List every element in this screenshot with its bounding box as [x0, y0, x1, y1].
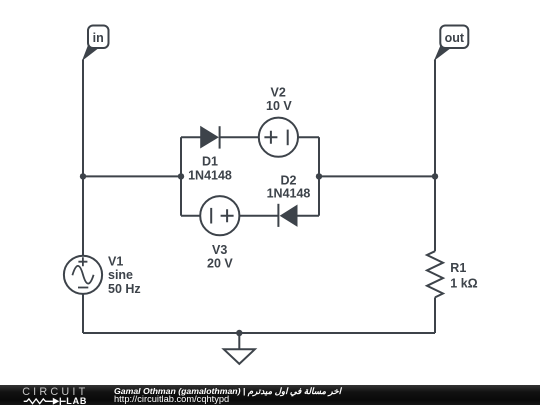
- node dot ground: [236, 330, 242, 336]
- svg-text:1N4148: 1N4148: [188, 169, 232, 183]
- wire: loop left vertical: [180, 137, 182, 216]
- svg-text:D2: D2: [281, 173, 297, 187]
- svg-text:20 V: 20 V: [207, 257, 233, 271]
- node dot left: [80, 173, 86, 179]
- wire: bottom branch segments: [181, 215, 319, 217]
- wire: right vertical below R1: [434, 297, 436, 333]
- voltage source V2: [259, 86, 298, 157]
- wire: mid horizontal left: [83, 175, 181, 177]
- resistor R1: [427, 251, 478, 297]
- svg-text:out: out: [445, 31, 465, 45]
- flag in: [83, 26, 109, 60]
- svg-text:in: in: [93, 31, 104, 45]
- svg-text:V2: V2: [271, 86, 286, 100]
- wire: bottom horizontal: [83, 332, 435, 334]
- diode D2: [267, 173, 311, 227]
- wire: mid horizontal right: [319, 175, 435, 177]
- CircuitLab logo: [0, 385, 107, 405]
- svg-text:1 kΩ: 1 kΩ: [450, 277, 477, 291]
- ground: [224, 349, 255, 364]
- voltage source V1 (sine): [64, 255, 141, 296]
- svg-text:R1: R1: [450, 261, 466, 275]
- svg-text:V1: V1: [108, 255, 123, 269]
- wire: in flag lead, left vertical: [82, 60, 84, 256]
- flag out: [435, 26, 468, 60]
- wire: loop right vertical: [318, 137, 320, 216]
- svg-text:1N4148: 1N4148: [267, 187, 311, 201]
- node dot right: [432, 173, 438, 179]
- node dot loop-left: [178, 173, 184, 179]
- wire: left vertical below V1: [82, 294, 84, 333]
- svg-text:sine: sine: [108, 268, 133, 282]
- svg-text:50 Hz: 50 Hz: [108, 282, 141, 296]
- svg-text:LAB: LAB: [66, 396, 87, 405]
- wire: top branch segments: [181, 136, 319, 138]
- diode D1: [188, 126, 232, 183]
- voltage source V3: [200, 196, 239, 271]
- svg-text:V3: V3: [212, 243, 227, 257]
- wire: ground stub: [238, 333, 240, 349]
- footer bar: [0, 385, 540, 405]
- wire: out flag lead, right vertical: [434, 60, 436, 252]
- node dot loop-right: [316, 173, 322, 179]
- svg-text:10 V: 10 V: [266, 99, 292, 113]
- svg-text:D1: D1: [202, 154, 218, 168]
